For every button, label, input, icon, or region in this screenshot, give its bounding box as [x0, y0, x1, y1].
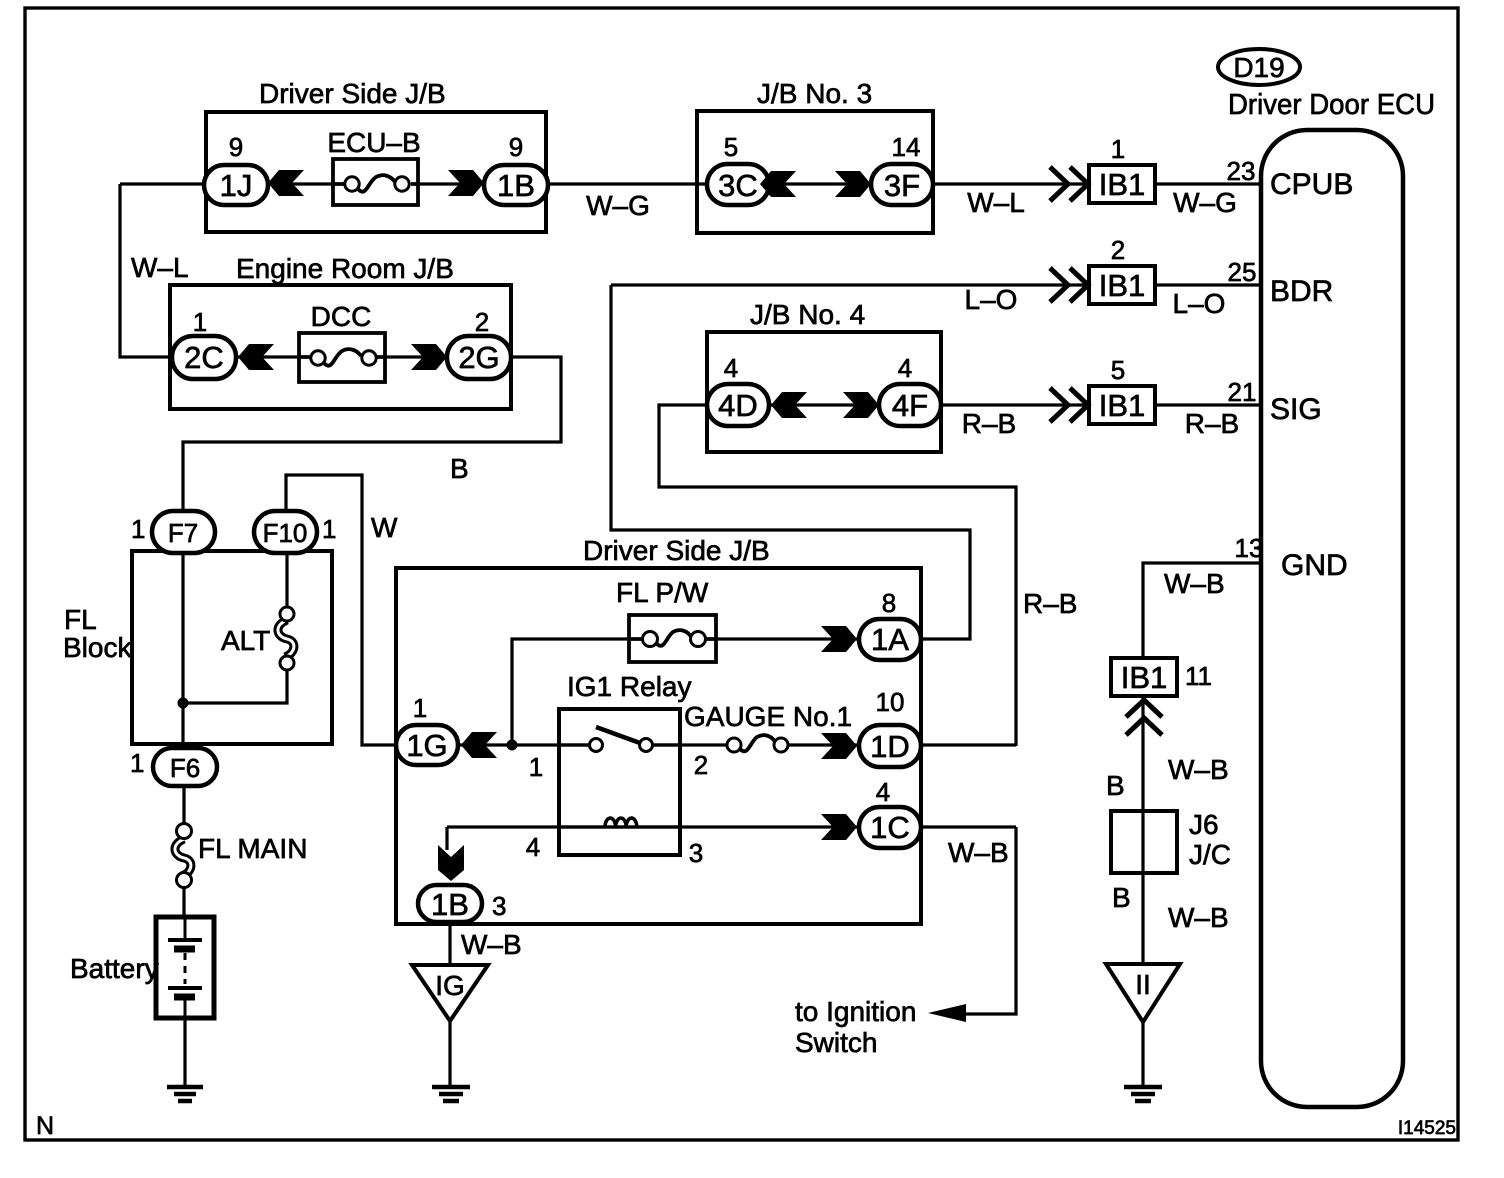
svg-text:1: 1	[529, 752, 543, 782]
svg-text:9: 9	[509, 132, 523, 162]
svg-text:3: 3	[492, 891, 506, 921]
svg-text:3C: 3C	[718, 168, 758, 203]
svg-text:1C: 1C	[870, 810, 910, 845]
svg-text:10: 10	[876, 687, 905, 717]
svg-text:GAUGE No.1: GAUGE No.1	[684, 701, 852, 732]
svg-text:1: 1	[1111, 134, 1125, 164]
svg-text:14: 14	[892, 132, 921, 162]
svg-text:W–G: W–G	[1173, 187, 1237, 218]
svg-text:R–B: R–B	[1185, 408, 1239, 439]
svg-text:F6: F6	[170, 753, 200, 783]
svg-text:Driver Side J/B: Driver Side J/B	[583, 535, 770, 566]
svg-text:FL MAIN: FL MAIN	[198, 833, 307, 864]
svg-text:GND: GND	[1281, 549, 1348, 582]
svg-text:BDR: BDR	[1270, 275, 1333, 308]
svg-text:4: 4	[724, 353, 738, 383]
svg-text:1A: 1A	[871, 622, 909, 657]
svg-text:W–B: W–B	[1168, 902, 1229, 933]
svg-text:2G: 2G	[458, 340, 499, 375]
svg-text:IG: IG	[435, 970, 465, 1001]
svg-text:2: 2	[694, 750, 708, 780]
svg-text:Driver Side J/B: Driver Side J/B	[259, 78, 446, 109]
svg-text:Engine Room J/B: Engine Room J/B	[236, 253, 454, 284]
svg-text:2: 2	[475, 307, 489, 337]
svg-text:DCC: DCC	[311, 301, 372, 332]
svg-text:W–B: W–B	[461, 929, 522, 960]
svg-text:21: 21	[1228, 377, 1257, 407]
svg-text:8: 8	[882, 588, 896, 618]
svg-text:F7: F7	[168, 518, 198, 548]
svg-text:2: 2	[1111, 235, 1125, 265]
svg-text:W: W	[371, 512, 398, 543]
svg-text:1J: 1J	[220, 168, 253, 203]
svg-text:13: 13	[1235, 533, 1264, 563]
svg-text:J/B No. 3: J/B No. 3	[757, 78, 872, 109]
svg-text:1G: 1G	[406, 728, 447, 763]
svg-text:W–B: W–B	[948, 837, 1009, 868]
svg-text:W–B: W–B	[1164, 568, 1225, 599]
svg-text:ALT: ALT	[221, 625, 270, 656]
svg-text:1B: 1B	[431, 887, 469, 922]
svg-text:IB1: IB1	[1121, 660, 1168, 695]
svg-text:1: 1	[322, 514, 336, 544]
svg-text:5: 5	[724, 132, 738, 162]
svg-text:W–L: W–L	[967, 187, 1025, 218]
svg-text:IB1: IB1	[1099, 388, 1146, 423]
svg-text:9: 9	[229, 132, 243, 162]
svg-text:4D: 4D	[718, 388, 758, 423]
svg-text:ECU–B: ECU–B	[327, 127, 420, 158]
svg-text:FL: FL	[64, 604, 97, 635]
svg-text:Battery: Battery	[70, 953, 159, 984]
svg-text:II: II	[1135, 969, 1151, 1000]
svg-text:3F: 3F	[884, 168, 920, 203]
svg-text:Switch: Switch	[795, 1027, 877, 1058]
svg-text:Driver Door ECU: Driver Door ECU	[1228, 89, 1435, 121]
svg-text:W–L: W–L	[131, 252, 189, 283]
svg-text:25: 25	[1228, 257, 1257, 287]
svg-text:B: B	[1106, 770, 1125, 801]
svg-text:5: 5	[1111, 355, 1125, 385]
svg-text:4: 4	[876, 777, 890, 807]
svg-text:4: 4	[526, 832, 540, 862]
svg-text:3: 3	[689, 838, 703, 868]
svg-text:D19: D19	[1233, 52, 1284, 83]
svg-text:J/B No. 4: J/B No. 4	[750, 299, 865, 330]
svg-text:W–G: W–G	[586, 190, 650, 221]
svg-text:11: 11	[1185, 661, 1212, 691]
svg-text:F10: F10	[263, 518, 308, 548]
svg-text:B: B	[450, 453, 469, 484]
svg-text:4: 4	[898, 353, 912, 383]
svg-text:CPUB: CPUB	[1270, 168, 1353, 201]
svg-text:IB1: IB1	[1099, 167, 1146, 202]
svg-text:B: B	[1112, 882, 1131, 913]
svg-text:L–O: L–O	[965, 284, 1018, 315]
svg-text:IG1 Relay: IG1 Relay	[567, 671, 692, 702]
svg-text:W–B: W–B	[1168, 754, 1229, 785]
svg-text:R–B: R–B	[1023, 588, 1077, 619]
svg-text:L–O: L–O	[1173, 288, 1226, 319]
svg-text:J6: J6	[1189, 809, 1219, 840]
svg-text:J/C: J/C	[1189, 839, 1231, 870]
svg-text:SIG: SIG	[1270, 393, 1322, 426]
svg-text:to Ignition: to Ignition	[795, 996, 916, 1027]
svg-text:IB1: IB1	[1099, 268, 1146, 303]
svg-text:23: 23	[1227, 156, 1256, 186]
svg-text:Block: Block	[63, 632, 132, 663]
svg-text:1: 1	[413, 693, 427, 723]
svg-text:I14525: I14525	[1398, 1118, 1456, 1139]
svg-text:R–B: R–B	[962, 408, 1016, 439]
svg-text:FL P/W: FL P/W	[616, 577, 709, 608]
svg-text:4F: 4F	[892, 388, 928, 423]
svg-text:1: 1	[131, 514, 145, 544]
svg-text:1D: 1D	[870, 729, 910, 764]
svg-text:N: N	[36, 1112, 54, 1140]
svg-text:1: 1	[130, 748, 144, 778]
svg-text:1B: 1B	[497, 168, 535, 203]
svg-text:1: 1	[193, 307, 207, 337]
svg-text:2C: 2C	[184, 340, 224, 375]
